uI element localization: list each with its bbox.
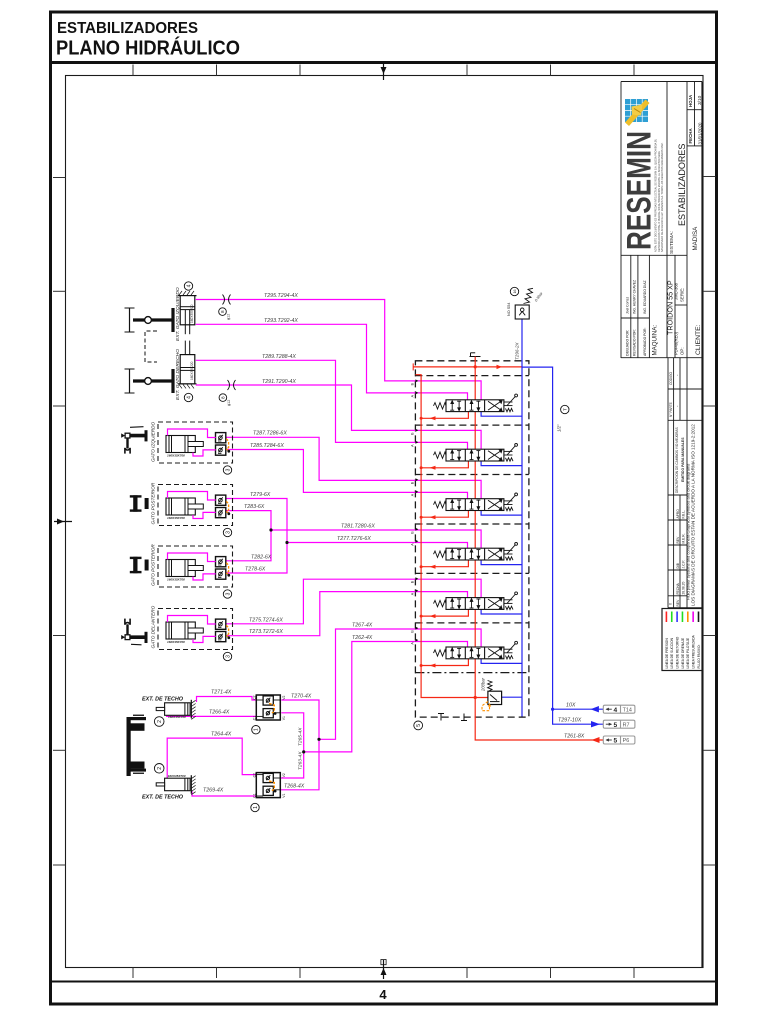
svg-text:LOS DIAGRAMAS DE CIRCUITO ESTA: LOS DIAGRAMAS DE CIRCUITO ESTAN DE ACUER…: [691, 424, 696, 606]
check valve labels: [507, 291, 544, 360]
svg-text:T295.T294-4X: T295.T294-4X: [264, 293, 298, 299]
revision table rows: [669, 509, 686, 607]
pilot check valve lower GATO DELANTERO: [216, 632, 226, 642]
svg-text:T271-4X: T271-4X: [211, 690, 232, 696]
balloon 2 lower roof cylinder: [154, 764, 164, 774]
counterbalance block lower: [253, 773, 287, 798]
svg-text:T266-4X: T266-4X: [209, 710, 230, 716]
svg-text:N° PARTE: N° PARTE: [669, 402, 673, 417]
svg-text:LINEA DE RETORNO: LINEA DE RETORNO: [676, 636, 680, 668]
svg-text:REV: REV: [676, 536, 680, 544]
internal lines GATO DELANTERO: [168, 616, 216, 643]
wire T267-4X: [319, 629, 481, 739]
pilot check valve upper GATO IZQUIERDO: [216, 433, 226, 443]
svg-text:GATO POSTERIOR: GATO POSTERIOR: [151, 544, 156, 586]
svg-text:OP:: OP:: [680, 347, 685, 355]
svg-text:EXT. DE TECHO: EXT. DE TECHO: [142, 697, 184, 703]
centre marker bottom: [381, 960, 387, 980]
svg-text:10X: 10X: [566, 703, 576, 709]
wire T293.T292-4X: [196, 324, 468, 400]
svg-text:T283-6X: T283-6X: [244, 504, 265, 510]
svg-text:1: 1: [253, 806, 259, 809]
cylinder EXT GATO DERECHO: [178, 341, 197, 389]
internal lines GATO POSTERIOR: [168, 553, 216, 580]
svg-text:REVISADO POR:: REVISADO POR:: [632, 329, 636, 356]
SERIE / OP cells: [674, 282, 685, 355]
svg-text:4: 4: [379, 987, 387, 1002]
svg-text:4: 4: [614, 707, 618, 714]
pilot check valve lower GATO POSTERIOR: [216, 508, 226, 518]
MAQUINA cell: [652, 280, 675, 355]
port letters section 6: [411, 627, 419, 645]
section 3 blue T connection: [481, 511, 522, 516]
svg-text:C2: C2: [253, 695, 257, 699]
ISO normative note: [686, 424, 696, 606]
svg-text:P6: P6: [623, 738, 630, 744]
section 2 blue T connection: [481, 461, 522, 466]
pilot cross line GATO DELANTERO: [226, 625, 230, 639]
jack group GATO IZQUIERDO dashed box: [158, 422, 233, 463]
pilot check valve upper GATO POSTERIOR: [216, 557, 226, 567]
svg-text:T278-6X: T278-6X: [245, 567, 266, 573]
svg-text:T277.T276-6X: T277.T276-6X: [337, 536, 371, 542]
svg-text:LINEA DE PILOTAJE: LINEA DE PILOTAJE: [686, 637, 690, 668]
svg-text:1/2": 1/2": [557, 424, 562, 432]
item ball 3: [223, 652, 231, 660]
svg-text:ING. HENRY CHAVEZ: ING. HENRY CHAVEZ: [632, 280, 636, 314]
jack group GATO POSTERIOR dashed box: [158, 485, 233, 526]
trunnion mount: [130, 495, 149, 512]
svg-text:T268-4X: T268-4X: [284, 783, 305, 789]
cylinder GATO DELANTERO: [166, 622, 203, 644]
svg-text:HOJA: HOJA: [688, 94, 693, 107]
svg-text:T270-4X: T270-4X: [291, 694, 312, 700]
svg-text:3: 3: [225, 592, 231, 595]
directional valve 4: [434, 543, 518, 561]
red junction dots: [474, 365, 477, 699]
svg-text:FECHA: FECHA: [676, 583, 680, 595]
svg-text:LINEA DE DRENAJE: LINEA DE DRENAJE: [681, 637, 685, 669]
zone tick marks left edge: [53, 178, 66, 866]
wire T287.T286-6X: [225, 437, 481, 499]
svg-text:ϕ12: ϕ12: [227, 314, 231, 320]
blue tank rail inner: [502, 319, 525, 717]
svg-text:T261-8X: T261-8X: [564, 734, 585, 740]
cylinder GATO IZQUIERDO: [166, 436, 203, 458]
svg-text:T: T: [562, 408, 567, 411]
item ball 3: [223, 466, 231, 474]
section 1 blue T connection: [481, 412, 522, 417]
svg-text:T297-10X: T297-10X: [558, 718, 582, 724]
reference box R7: [603, 720, 635, 729]
footer strip with sheet number 4: [50, 982, 717, 1003]
cylinder GATO POSTERIOR: [166, 560, 203, 582]
wire T285.T284-6X: [225, 450, 468, 500]
section 5 red P connection: [420, 609, 469, 618]
wire T275.T274-6X: [225, 579, 481, 624]
section 4 blue T connection: [481, 560, 522, 565]
svg-text:R7: R7: [623, 722, 630, 728]
svg-text:Fluid power systems and compon: Fluid power systems and component-Graphi…: [686, 464, 691, 600]
directional valve 2: [434, 444, 518, 462]
wire T282-6X: [225, 530, 271, 561]
directional valve 6: [434, 641, 518, 659]
svg-text:MADISA: MADISA: [692, 226, 699, 251]
junction dots magenta: [269, 528, 320, 753]
disclaimer small print: [655, 139, 664, 252]
svg-text:160X35X700: 160X35X700: [167, 640, 185, 644]
item ball 3: [223, 590, 231, 598]
mount EXT GATO IZQUIERDO: [125, 308, 175, 332]
wire T262-4X: [304, 642, 468, 752]
legend box line colour key: [662, 609, 702, 671]
item ball 3: [223, 528, 231, 536]
svg-text:Joel Cortez: Joel Cortez: [625, 297, 629, 314]
internal lines GATO IZQUIERDO: [168, 429, 216, 456]
svg-text:5: 5: [416, 724, 422, 727]
red pressure top header: [413, 363, 522, 370]
red pressure mid rail down to P6: [475, 357, 603, 744]
svg-text:T262-4X: T262-4X: [352, 635, 373, 641]
mount EXT GATO DERECHO: [125, 369, 175, 393]
svg-text:ESTABILIZADORES: ESTABILIZADORES: [677, 144, 687, 226]
wire T295.T294-4X: [196, 300, 481, 401]
svg-text:LINEA PRESURIZADA: LINEA PRESURIZADA: [692, 634, 696, 668]
svg-text:3/10: 3/10: [697, 95, 703, 105]
svg-text:REV: REV: [676, 599, 680, 607]
svg-text:T273.T272-6X: T273.T272-6X: [249, 629, 283, 635]
svg-text:5: 5: [614, 738, 618, 745]
svg-text:SANCIONADO DE ACUERDO A LEY. R: SANCIONADO DE ACUERDO A LEY. RESEMIN S.A…: [661, 142, 664, 252]
bank bottom port stubs: [438, 714, 467, 721]
balloon 1 upper block: [252, 726, 260, 734]
svg-text:0: 0: [669, 603, 673, 605]
svg-text:JMC-368: JMC-368: [674, 282, 679, 300]
section 5 blue T connection: [481, 609, 522, 614]
cylinder EXT DE TECHO lower: [156, 775, 195, 795]
wire T271-4X: [197, 697, 257, 703]
svg-text:C2: C2: [253, 773, 257, 777]
svg-text:2: 2: [157, 767, 163, 770]
zone tick marks right edge: [703, 177, 716, 866]
centre marker left: [54, 519, 72, 525]
jack group GATO POSTERIOR dashed box: [158, 546, 233, 587]
wire T266-4X: [166, 715, 256, 717]
svg-text:4: 4: [186, 284, 192, 287]
wire T277.T276-6X: [287, 543, 468, 549]
tank check valve 0.5bar: [515, 288, 533, 319]
svg-text:PLANO HIDRÁULICO: PLANO HIDRÁULICO: [56, 37, 240, 60]
red pressure rail left: [415, 375, 488, 698]
svg-text:T14: T14: [623, 707, 632, 713]
balloon 2 upper roof cylinder: [154, 717, 164, 727]
svg-text:CODIGO: CODIGO: [669, 372, 673, 385]
revision description: [675, 427, 685, 493]
svg-text:T267-4X: T267-4X: [352, 623, 373, 629]
svg-text:T263-4X: T263-4X: [298, 751, 304, 770]
port letters section 1: [411, 379, 419, 397]
svg-text:EXT. GATO IZQUIERDO: EXT. GATO IZQUIERDO: [175, 287, 181, 341]
CODIGO / N PARTE rows: [669, 372, 679, 417]
wire T265-4X / T263-4X: [280, 713, 304, 778]
svg-text:APRO: APRO: [676, 509, 680, 519]
RESEMIN logo emblem: [625, 99, 650, 126]
wire T279-6X: [225, 499, 287, 543]
pilot cross line GATO IZQUIERDO: [226, 439, 230, 453]
jack group GATO DELANTERO dashed box: [158, 609, 233, 650]
header title box: [50, 20, 717, 63]
relief valve pilot line: [482, 702, 491, 711]
svg-text:C1: C1: [253, 793, 257, 797]
svg-text:DESCRIPCION DE CAMBIOS Y/O: DESCRIPCION DE CAMBIOS Y/O MEJORAS: [675, 427, 679, 493]
roof bracket: [127, 715, 147, 776]
port letters section 5: [411, 577, 419, 595]
section 2 red P connection: [420, 461, 469, 470]
section 3 red P connection: [420, 511, 469, 520]
svg-text:T282-6X: T282-6X: [251, 554, 272, 560]
section 4 red P connection: [420, 560, 469, 569]
svg-text:3: 3: [225, 655, 231, 658]
dashed link between mounts: [145, 331, 157, 362]
balloon 8 hose upper: [219, 308, 227, 316]
svg-text:T281.T280-6X: T281.T280-6X: [341, 524, 375, 530]
trunnion mount: [130, 557, 149, 574]
svg-text:DIBUJADO POR:: DIBUJADO POR:: [625, 330, 629, 356]
port letters section 3: [411, 478, 419, 496]
svg-text:T285.T284-6X: T285.T284-6X: [250, 443, 284, 449]
pilot cross line GATO POSTERIOR: [226, 501, 230, 515]
wire labels: [203, 293, 375, 794]
cylinder EXT DE TECHO upper: [156, 700, 195, 720]
svg-text:T264-4X: T264-4X: [211, 732, 232, 738]
reference box T14: [603, 705, 635, 714]
svg-text:1: 1: [254, 728, 260, 731]
mount GATO DELANTERO: [121, 619, 146, 645]
svg-text:16: 16: [513, 290, 517, 294]
pilot check valve lower GATO IZQUIERDO: [216, 445, 226, 455]
svg-text:160X35X220: 160X35X220: [190, 304, 194, 323]
svg-text:ϕ12: ϕ12: [227, 400, 231, 406]
reference box P6: [603, 736, 635, 745]
wire T270-4X / T268-4X: [280, 700, 319, 790]
section 6 red P connection: [420, 659, 469, 668]
svg-text:160X35X700: 160X35X700: [167, 577, 185, 581]
svg-text:P1449(RE0): P1449(RE0): [674, 331, 679, 355]
svg-text:GATO POSTERIOR: GATO POSTERIOR: [151, 482, 156, 524]
relief valve 200bar: [481, 677, 502, 704]
svg-text:4: 4: [186, 396, 192, 399]
directional valve 5: [434, 592, 518, 610]
svg-text:V2: V2: [282, 773, 286, 777]
svg-text:LINEA DE PRESION: LINEA DE PRESION: [665, 638, 669, 669]
svg-text:ING. EDUARDO DIAZ: ING. EDUARDO DIAZ: [643, 280, 647, 314]
hose symbol cyl1: [223, 295, 231, 305]
section 6 blue T connection: [481, 659, 522, 664]
svg-text:31/01/2020: 31/01/2020: [697, 122, 702, 145]
balloon 4 lower: [184, 393, 192, 401]
svg-text:SISTEMA:: SISTEMA:: [669, 231, 675, 254]
svg-text:160X35X700: 160X35X700: [168, 715, 186, 719]
svg-text:T291.T290-4X: T291.T290-4X: [262, 379, 296, 385]
wire T264-4X: [167, 738, 256, 778]
svg-text:V1: V1: [282, 716, 286, 720]
valve bank enclosure: [415, 361, 529, 717]
svg-text:5: 5: [614, 722, 618, 729]
svg-text:T275.T274-6X: T275.T274-6X: [249, 617, 283, 623]
wire T273.T272-6X: [225, 592, 468, 636]
port letters section 2: [411, 429, 419, 447]
svg-text:GATO IZQUIERDO: GATO IZQUIERDO: [151, 421, 156, 462]
svg-text:CLIENTE:: CLIENTE:: [695, 324, 702, 355]
pilot check valve upper GATO DELANTERO: [216, 619, 226, 629]
pilot cross line GATO POSTERIOR: [226, 563, 230, 577]
bank item ball 5: [414, 721, 423, 730]
svg-text:FLUJO PASIVO:: FLUJO PASIVO:: [697, 644, 701, 668]
wire T269-4X: [192, 791, 256, 796]
svg-text:C1: C1: [253, 716, 257, 720]
balloon 8 hose lower: [219, 394, 227, 402]
svg-text:SERIE:: SERIE:: [680, 288, 685, 302]
directional valve 1: [434, 394, 518, 412]
port letters section 4: [411, 528, 419, 546]
svg-text:EXT. GATO DERECHO: EXT. GATO DERECHO: [175, 349, 181, 400]
zone tick marks top edge: [133, 65, 634, 76]
svg-text:T293.T292-4X: T293.T292-4X: [264, 318, 298, 324]
hose symbol cyl2: [228, 380, 236, 390]
svg-text:3: 3: [225, 468, 231, 471]
svg-text:EXT. DE TECHO: EXT. DE TECHO: [142, 795, 184, 801]
directional valve 3: [434, 493, 518, 511]
mount GATO IZQUIERDO: [121, 427, 146, 454]
counterbalance block upper: [253, 695, 287, 720]
SISTEMA cell: [669, 144, 687, 254]
svg-text:T289.T288-4X: T289.T288-4X: [262, 354, 296, 360]
svg-text:ESTABILIZADORES: ESTABILIZADORES: [57, 20, 198, 37]
svg-text:T287.T286-6X: T287.T286-6X: [253, 431, 287, 437]
svg-text:V1: V1: [282, 794, 286, 798]
wire T278-6X: [225, 543, 287, 574]
pilot check valve lower GATO POSTERIOR: [216, 569, 226, 579]
svg-text:160X35X700: 160X35X700: [167, 516, 185, 520]
svg-text:T296-2X: T296-2X: [515, 341, 520, 360]
cylinder GATO POSTERIOR: [166, 498, 203, 520]
wire T291.T290-4X: [196, 385, 481, 450]
drawn/checked/approved rows: [625, 280, 647, 356]
svg-text:T269-4X: T269-4X: [203, 788, 224, 794]
balloon 16 check valve: [510, 287, 518, 295]
svg-text:LINEA DE SUCCION: LINEA DE SUCCION: [670, 637, 674, 668]
svg-text:T265-4X: T265-4X: [298, 727, 304, 746]
pilot check valve upper GATO POSTERIOR: [216, 495, 226, 505]
wire T281.T280-6X: [271, 530, 481, 549]
svg-text:200bar: 200bar: [481, 677, 486, 692]
internal lines GATO POSTERIOR: [168, 492, 216, 519]
FECHA cell: [688, 122, 703, 145]
svg-text:160X35X700: 160X35X700: [168, 774, 186, 778]
svg-text:NO S54: NO S54: [507, 302, 511, 316]
svg-text:GATO DELANTERO: GATO DELANTERO: [151, 605, 156, 648]
tank line tag: [561, 405, 569, 413]
svg-text:V2: V2: [282, 696, 286, 700]
svg-text:160X35X220: 160X35X220: [190, 361, 194, 380]
blue tank line to T14 / R7: [522, 367, 603, 727]
svg-text:3: 3: [225, 531, 231, 534]
valve bank section dividers: [415, 376, 529, 673]
balloon 4 upper: [184, 282, 192, 290]
svg-text:APROBADO POR:: APROBADO POR:: [643, 327, 647, 356]
svg-text:RESEMIN: RESEMIN: [621, 131, 659, 250]
svg-text:DIB: DIB: [676, 562, 680, 568]
wire T289.T288-4X: [196, 360, 468, 449]
zone tick marks bottom edge: [133, 968, 634, 979]
section 1 red P connection: [420, 412, 469, 421]
centre marker top: [381, 64, 387, 80]
cylinder EXT GATO IZQUIERDO: [178, 291, 197, 334]
title block table lines: [621, 82, 702, 968]
CLIENTE cell: [692, 226, 702, 355]
HOJA cell: [688, 94, 703, 107]
reference line labels: [558, 703, 585, 740]
svg-text:160X35X700: 160X35X700: [167, 453, 185, 457]
wire T283-6X: [225, 511, 271, 530]
P port stub on bank top: [470, 353, 481, 357]
inner drawing frame: [66, 76, 704, 968]
svg-text:T279-6X: T279-6X: [250, 492, 271, 498]
svg-text:MAQUINA:: MAQUINA:: [652, 325, 659, 356]
svg-text:2: 2: [157, 720, 163, 723]
svg-text:FECHA: FECHA: [688, 128, 693, 144]
balloon 1 lower block: [251, 803, 259, 811]
